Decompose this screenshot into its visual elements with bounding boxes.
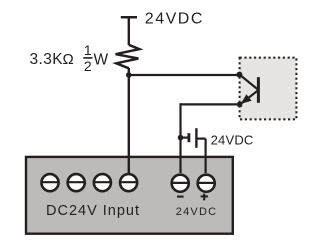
wire from rail to resistor: [128, 17, 130, 45]
svg-text:W: W: [94, 51, 109, 68]
svg-text:24VDC: 24VDC: [211, 132, 254, 147]
svg-text:3.3K: 3.3K: [30, 51, 64, 68]
wire down from corner to minus terminal: [179, 103, 181, 173]
transistor base bar: [257, 77, 260, 103]
label minus polarity: [177, 196, 184, 198]
terminal 1: [41, 174, 58, 191]
junction node emitter/wire at box edge: [237, 102, 242, 107]
sensor dotted box: [240, 58, 297, 120]
wire bottom horizontal (emitter to battery branch): [181, 103, 241, 105]
label plus polarity: [201, 194, 208, 201]
terminal 3: [94, 174, 111, 191]
battery short plate (negative): [187, 133, 190, 142]
transistor emitter line with arrow: [240, 90, 259, 104]
wire from junction to sensor box (collector): [129, 74, 240, 76]
terminal block DC24V Input: [26, 157, 233, 234]
fraction bar: [83, 57, 92, 59]
power rail bar +24VDC: [121, 16, 137, 19]
svg-text:2: 2: [84, 58, 92, 74]
svg-text:Ω: Ω: [63, 51, 74, 68]
wire resistor bottom down to terminal 4: [128, 68, 130, 173]
svg-text:DC24V Input: DC24V Input: [46, 203, 140, 219]
junction node at battery tap: [178, 135, 184, 141]
battery connector to plus wire: [196, 138, 205, 140]
wire down from battery to plus terminal: [205, 139, 207, 173]
transistor Q (sensor output NPN): [240, 75, 259, 105]
terminal minus: [172, 175, 189, 192]
battery B 24VDC: [181, 128, 206, 148]
svg-text:24VDC: 24VDC: [176, 206, 217, 218]
transistor collector line: [240, 75, 259, 90]
svg-text:1: 1: [84, 42, 92, 58]
terminal plus: [198, 175, 215, 192]
svg-text:24VDC: 24VDC: [145, 11, 204, 28]
terminal 2: [68, 174, 85, 191]
junction node at resistor bottom: [126, 72, 132, 78]
junction node at box edge (collector entry): [236, 72, 242, 78]
terminal 4 (input): [120, 174, 137, 191]
resistor R 3.3KΩ 1/2W: [116, 45, 140, 69]
battery long plate (positive): [195, 128, 197, 148]
battery stub wire: [181, 137, 189, 139]
